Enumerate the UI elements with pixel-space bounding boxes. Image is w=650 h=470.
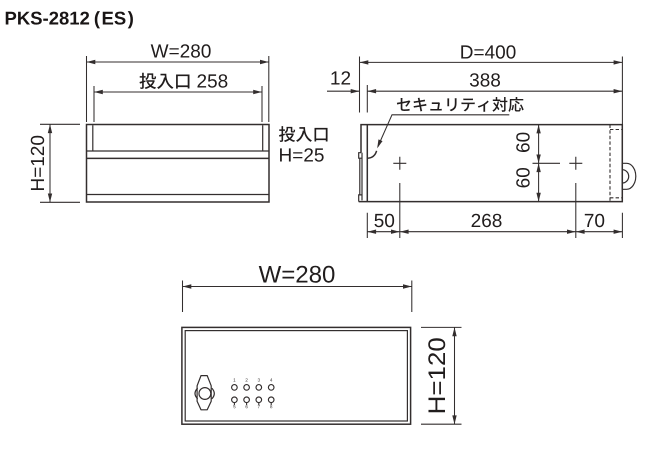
side view: door bottom hinge tab xyxy=(359,195,362,202)
dimension D=400: extension lines xyxy=(360,57,623,125)
dimension 70: label xyxy=(585,214,594,227)
front view: slot right inner vertical xyxy=(262,125,264,151)
side view: door top hinge tab xyxy=(359,153,362,159)
dimension W=280 (front): extension lines xyxy=(87,56,269,122)
dimension W=280 (front): label xyxy=(151,44,169,57)
dimension H=120 (front): dim line xyxy=(49,124,51,202)
dimension 60/60: dim line xyxy=(538,125,540,202)
front view: bottom inner line xyxy=(87,194,270,196)
dimension W=280 (bottom): extension lines xyxy=(183,281,412,313)
bottom chain dims: dim line xyxy=(367,231,622,233)
security hook detail xyxy=(367,151,376,158)
side view: dashed back panel horizontals xyxy=(610,130,622,198)
side view: front face inner line xyxy=(366,125,368,202)
dimension H=120 (bottom): extension lines xyxy=(421,327,462,424)
dimension slot 258: dim line xyxy=(94,91,262,93)
bottom view: inner rect xyxy=(185,331,407,421)
lock dial circle xyxy=(199,388,211,400)
label slot height (投入口 H=25) xyxy=(279,126,295,142)
dimension D=400: dim line xyxy=(360,61,623,63)
dimension 12: label xyxy=(331,71,339,84)
dimension D=400: label xyxy=(461,45,472,58)
dimension slot 258: label (投入口 258) xyxy=(139,73,156,89)
side view: mounting cross left xyxy=(393,157,406,170)
front view: slot bottom line xyxy=(87,150,270,152)
side view: box outline xyxy=(359,125,623,202)
dimension 12: dim line with outside arrow xyxy=(327,90,360,92)
dimension 60/60: center tick xyxy=(533,162,561,164)
dimension H=120 (front): label xyxy=(31,136,44,190)
dimension 60 upper: label xyxy=(516,133,529,152)
dimension W=280 (front): dim line xyxy=(87,61,269,63)
label セキュリティ対応 xyxy=(397,98,410,111)
dimension 388: dim line xyxy=(367,90,622,92)
dimension 50: label xyxy=(374,214,383,227)
front view: slot left inner vertical xyxy=(92,125,94,151)
side view: lock knob inner arc xyxy=(622,170,628,183)
side view: mounting cross right xyxy=(569,157,582,170)
dimension W=280 (bottom): label xyxy=(259,266,281,283)
dimension 388: label xyxy=(470,73,479,86)
bottom view: outer rect xyxy=(182,327,411,424)
front view: box outline xyxy=(87,125,270,203)
dimension slot 258: extension lines xyxy=(94,86,262,122)
lock body (spool shape) xyxy=(197,376,211,410)
push buttons row 1 (digits 1-4) xyxy=(232,385,238,391)
dimension H=120 (front): extension lines xyxy=(40,124,80,202)
side view: door face line xyxy=(361,153,363,201)
leader line for security label xyxy=(378,115,510,147)
lock left ear xyxy=(195,388,198,399)
dimension H=120 (bottom): dim line xyxy=(454,327,456,424)
bottom chain dims: extension lines xyxy=(367,183,622,238)
dimension 388: extension line xyxy=(366,85,368,113)
dimension H=120 (bottom): label xyxy=(428,338,445,412)
dimension 268: label xyxy=(472,214,481,227)
push buttons row 2 (stems, digits 5-8) xyxy=(232,397,238,403)
dimension W=280 (bottom): dim line xyxy=(183,286,412,288)
front view: lip line xyxy=(87,157,270,159)
side view: hinge pin line xyxy=(359,158,361,195)
side view: lock knob outer xyxy=(622,163,636,189)
dimension 60 lower: label xyxy=(516,168,529,187)
title PKS-2812 (ES) xyxy=(6,12,16,25)
side view: dashed back panel vertical xyxy=(609,125,611,202)
lock right ear xyxy=(212,388,215,399)
